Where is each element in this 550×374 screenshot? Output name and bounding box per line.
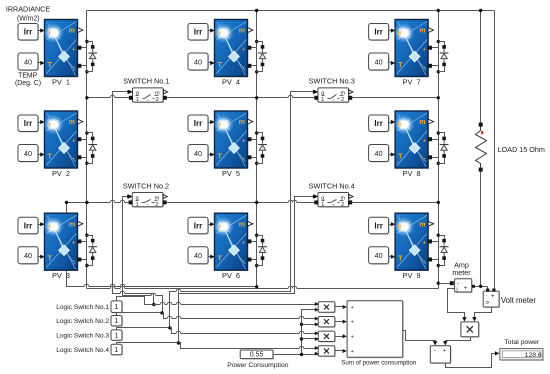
- svg-text:2: 2: [341, 97, 344, 103]
- svg-text:PV 6: PV 6: [222, 271, 240, 280]
- svg-text:-: -: [457, 280, 459, 287]
- svg-text:Irr: Irr: [24, 28, 32, 37]
- svg-text:Irr: Irr: [24, 221, 32, 230]
- svg-text:Logic Switch No.4: Logic Switch No.4: [56, 347, 109, 354]
- svg-text:+: +: [351, 334, 354, 340]
- svg-text:Logic Switch No.1: Logic Switch No.1: [56, 304, 109, 311]
- svg-text:40: 40: [194, 57, 202, 66]
- svg-text:SWITCH No.3: SWITCH No.3: [309, 77, 355, 86]
- svg-text:SWITCH No.4: SWITCH No.4: [309, 181, 355, 190]
- svg-text:40: 40: [194, 251, 202, 260]
- svg-text:40: 40: [24, 149, 32, 158]
- svg-text:PV 9: PV 9: [403, 271, 421, 280]
- svg-text:1: 1: [321, 202, 324, 208]
- svg-text:PV 7: PV 7: [403, 77, 421, 86]
- svg-text:Irr: Irr: [194, 221, 202, 230]
- svg-text:40: 40: [375, 57, 383, 66]
- svg-text:1: 1: [115, 347, 119, 354]
- svg-text:+: +: [351, 349, 354, 355]
- svg-text:SWITCH No.2: SWITCH No.2: [123, 181, 169, 190]
- svg-text:SWITCH No.1: SWITCH No.1: [123, 77, 169, 86]
- svg-text:·: ·: [485, 293, 487, 299]
- svg-text:1: 1: [136, 202, 139, 208]
- svg-text:PV 1: PV 1: [52, 77, 70, 86]
- svg-text:Sum of power consumption: Sum of power consumption: [341, 360, 417, 367]
- svg-text:>: >: [486, 300, 490, 307]
- svg-text:2: 2: [155, 202, 158, 208]
- svg-text:Volt meter: Volt meter: [501, 296, 537, 305]
- svg-text:PV 4: PV 4: [222, 77, 240, 86]
- svg-text:i: i: [456, 288, 457, 294]
- svg-text:meter: meter: [452, 268, 471, 277]
- svg-text:PV 8: PV 8: [403, 169, 421, 178]
- svg-text:LOAD 15 Ohm: LOAD 15 Ohm: [498, 145, 545, 154]
- svg-text:IRRADIANCE: IRRADIANCE: [6, 4, 51, 13]
- svg-text:PV 2: PV 2: [52, 169, 70, 178]
- svg-text:1: 1: [321, 97, 324, 103]
- svg-text:1: 1: [136, 97, 139, 103]
- svg-text:40: 40: [24, 57, 32, 66]
- svg-text:2: 2: [341, 202, 344, 208]
- svg-text:1: 1: [115, 333, 119, 340]
- svg-text:40: 40: [375, 149, 383, 158]
- svg-text:Total power: Total power: [504, 339, 539, 346]
- svg-text:2: 2: [156, 97, 159, 103]
- svg-text:+: +: [351, 305, 354, 311]
- svg-text:Irr: Irr: [24, 119, 32, 128]
- svg-text:1: 1: [115, 318, 119, 325]
- svg-text:Logic Switch No.3: Logic Switch No.3: [56, 332, 109, 339]
- svg-text:Irr: Irr: [374, 119, 382, 128]
- svg-text:40: 40: [194, 149, 202, 158]
- svg-text:Irr: Irr: [374, 221, 382, 230]
- svg-text:TEMP: TEMP: [18, 72, 38, 79]
- svg-text:+: +: [464, 285, 468, 292]
- svg-text:128.6: 128.6: [525, 352, 542, 359]
- svg-text:PV 5: PV 5: [222, 169, 240, 178]
- svg-text:40: 40: [375, 251, 383, 260]
- svg-text:(Deg. C): (Deg. C): [15, 80, 41, 87]
- svg-text:40: 40: [24, 251, 32, 260]
- svg-text:+: +: [351, 320, 354, 326]
- svg-text:PV 3: PV 3: [52, 271, 70, 280]
- svg-text:Irr: Irr: [374, 28, 382, 37]
- svg-text:-: -: [434, 347, 436, 354]
- svg-text:1: 1: [115, 304, 119, 311]
- svg-text:Logic Switch No.2: Logic Switch No.2: [56, 318, 109, 325]
- svg-text:0.55: 0.55: [250, 352, 264, 359]
- svg-text:(W/m2): (W/m2): [17, 15, 40, 22]
- svg-text:+: +: [491, 293, 495, 300]
- svg-text:+: +: [443, 348, 446, 354]
- svg-text:Irr: Irr: [194, 28, 202, 37]
- svg-text:Power Consumption: Power Consumption: [227, 362, 288, 369]
- svg-text:Irr: Irr: [194, 119, 202, 128]
